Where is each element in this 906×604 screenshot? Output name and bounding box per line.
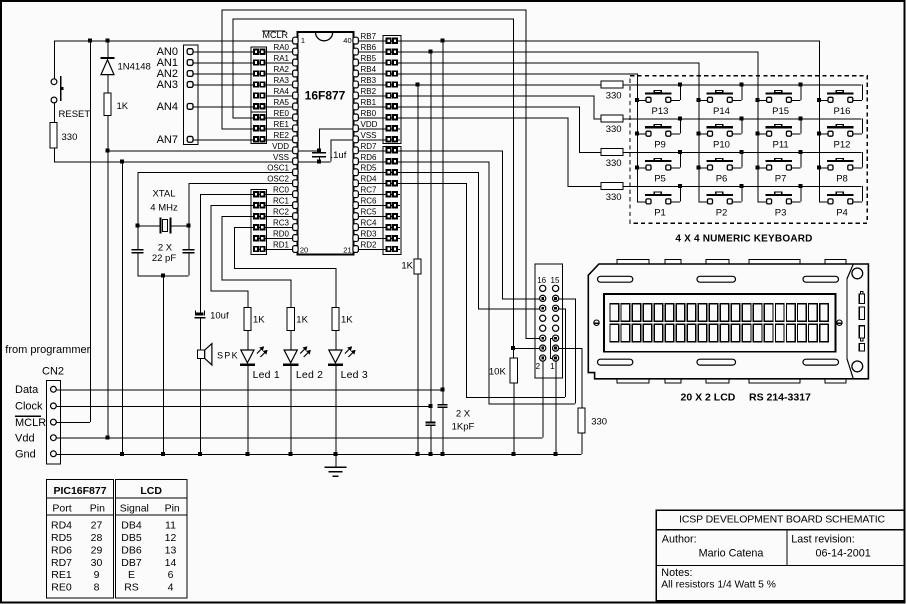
svg-text:RD4: RD4 — [51, 519, 72, 531]
svg-text:40: 40 — [343, 36, 351, 45]
svg-text:VSS: VSS — [361, 131, 377, 140]
svg-text:RD6: RD6 — [51, 544, 72, 556]
svg-text:E: E — [128, 569, 135, 581]
svg-text:MCLR: MCLR — [263, 30, 289, 40]
svg-text:P15: P15 — [772, 106, 789, 117]
svg-text:RS 214-3317: RS 214-3317 — [749, 391, 811, 403]
svg-text:DB4: DB4 — [121, 519, 142, 531]
svg-text:Pin: Pin — [165, 503, 180, 515]
svg-text:P9: P9 — [654, 140, 666, 151]
svg-text:RC0: RC0 — [273, 186, 290, 195]
svg-text:P5: P5 — [654, 174, 666, 185]
svg-text:1: 1 — [301, 36, 305, 45]
svg-text:RB6: RB6 — [361, 43, 377, 52]
svg-text:RD0: RD0 — [273, 230, 290, 239]
svg-text:30: 30 — [91, 557, 103, 569]
svg-text:22 pF: 22 pF — [152, 253, 176, 264]
svg-text:330: 330 — [62, 132, 78, 143]
svg-text:MCLR: MCLR — [15, 417, 46, 429]
svg-text:DB5: DB5 — [121, 532, 142, 544]
svg-text:P3: P3 — [775, 207, 787, 218]
svg-text:6: 6 — [168, 569, 174, 581]
svg-text:RE0: RE0 — [51, 582, 72, 594]
svg-text:RC2: RC2 — [273, 208, 290, 217]
svg-text:VDD: VDD — [272, 142, 289, 151]
svg-text:RD1: RD1 — [273, 241, 290, 250]
svg-text:P11: P11 — [772, 140, 788, 151]
svg-text:RA2: RA2 — [273, 65, 289, 74]
svg-text:RC5: RC5 — [361, 208, 378, 217]
svg-text:All resistors 1/4 Watt 5 %: All resistors 1/4 Watt 5 % — [661, 580, 776, 591]
svg-text:RESET: RESET — [59, 109, 91, 120]
svg-text:RC7: RC7 — [361, 186, 378, 195]
svg-text:RE2: RE2 — [273, 131, 289, 140]
svg-text:RA4: RA4 — [273, 87, 289, 96]
svg-text:RA3: RA3 — [273, 76, 289, 85]
svg-text:330: 330 — [606, 158, 622, 169]
svg-text:P2: P2 — [716, 207, 728, 218]
svg-text:RD5: RD5 — [51, 532, 72, 544]
svg-text:RA1: RA1 — [273, 54, 289, 63]
svg-text:RC1: RC1 — [273, 197, 290, 206]
svg-text:OSC2: OSC2 — [267, 175, 289, 184]
svg-text:P14: P14 — [713, 106, 730, 117]
svg-text:RB7: RB7 — [361, 32, 377, 41]
svg-text:RB5: RB5 — [361, 54, 377, 63]
svg-text:1K: 1K — [401, 261, 413, 272]
svg-text:SPK: SPK — [217, 350, 239, 360]
svg-text:Pin: Pin — [90, 503, 105, 515]
svg-text:RC6: RC6 — [361, 197, 378, 206]
svg-text:RA0: RA0 — [273, 43, 289, 52]
svg-text:OSC1: OSC1 — [267, 164, 289, 173]
svg-text:RB2: RB2 — [361, 87, 377, 96]
svg-text:20 X 2 LCD: 20 X 2 LCD — [681, 391, 736, 403]
svg-text:VSS: VSS — [273, 153, 289, 162]
svg-text:CN2: CN2 — [42, 366, 64, 378]
svg-text:06-14-2001: 06-14-2001 — [816, 548, 871, 560]
svg-text:RB0: RB0 — [361, 109, 377, 118]
svg-text:14: 14 — [165, 557, 177, 569]
svg-text:ICSP DEVELOPMENT BOARD SCHEMAT: ICSP DEVELOPMENT BOARD SCHEMATIC — [679, 514, 885, 526]
svg-text:RD7: RD7 — [361, 142, 378, 151]
svg-text:13: 13 — [165, 544, 177, 556]
svg-text:RB1: RB1 — [361, 98, 377, 107]
svg-text:P13: P13 — [652, 106, 669, 117]
svg-text:Led 2: Led 2 — [296, 369, 323, 381]
svg-text:RE1: RE1 — [273, 120, 289, 129]
svg-text:330: 330 — [591, 416, 607, 427]
svg-text:1: 1 — [550, 362, 555, 371]
svg-text:330: 330 — [606, 90, 622, 101]
svg-text:P4: P4 — [836, 207, 848, 218]
svg-text:1K: 1K — [296, 315, 308, 326]
svg-text:RB4: RB4 — [361, 65, 377, 74]
svg-text:Vdd: Vdd — [15, 433, 35, 445]
svg-text:LCD: LCD — [140, 485, 162, 497]
svg-text:P1: P1 — [654, 207, 666, 218]
svg-text:RD4: RD4 — [361, 175, 378, 184]
svg-text:Author:: Author: — [662, 534, 697, 546]
svg-text:330: 330 — [606, 192, 622, 203]
svg-text:RD7: RD7 — [51, 557, 72, 569]
svg-text:1KpF: 1KpF — [452, 421, 475, 432]
svg-text:2: 2 — [536, 362, 541, 371]
svg-text:Notes:: Notes: — [661, 567, 692, 579]
svg-text:RC3: RC3 — [273, 219, 290, 228]
svg-text:P8: P8 — [836, 174, 848, 185]
svg-text:Signal: Signal — [120, 503, 149, 515]
svg-text:Last revision:: Last revision: — [791, 534, 855, 546]
svg-text:RD2: RD2 — [361, 241, 378, 250]
svg-text:RS: RS — [124, 582, 139, 594]
svg-text:Clock: Clock — [15, 401, 43, 413]
svg-text:1N4148: 1N4148 — [118, 62, 151, 73]
svg-text:16: 16 — [537, 276, 546, 285]
svg-text:Port: Port — [52, 503, 71, 515]
svg-text:4 X 4 NUMERIC KEYBOARD: 4 X 4 NUMERIC KEYBOARD — [675, 233, 812, 244]
svg-text:28: 28 — [91, 532, 103, 544]
svg-text:27: 27 — [91, 519, 103, 531]
svg-text:4 MHz: 4 MHz — [150, 203, 178, 214]
svg-text:Led 3: Led 3 — [341, 369, 368, 381]
svg-text:AN7: AN7 — [157, 134, 178, 146]
svg-text:RD3: RD3 — [361, 230, 378, 239]
svg-text:P7: P7 — [775, 174, 787, 185]
svg-text:1K: 1K — [253, 315, 265, 326]
svg-text:Mario Catena: Mario Catena — [699, 548, 764, 560]
svg-text:RA5: RA5 — [273, 98, 289, 107]
svg-text:9: 9 — [94, 569, 100, 581]
svg-text:330: 330 — [606, 124, 622, 135]
svg-text:DB6: DB6 — [121, 544, 142, 556]
svg-text:12: 12 — [165, 532, 177, 544]
svg-text:11: 11 — [165, 519, 176, 531]
svg-text:10uf: 10uf — [210, 311, 229, 322]
svg-text:.1uf: .1uf — [331, 150, 347, 161]
svg-text:4: 4 — [168, 582, 174, 594]
svg-text:16F877: 16F877 — [305, 89, 346, 103]
svg-text:RD6: RD6 — [361, 153, 378, 162]
svg-text:AN3: AN3 — [157, 79, 178, 91]
svg-text:Led 1: Led 1 — [253, 369, 280, 381]
svg-text:RE0: RE0 — [273, 109, 289, 118]
svg-text:Gnd: Gnd — [15, 449, 36, 461]
svg-text:P6: P6 — [716, 174, 728, 185]
svg-text:21: 21 — [343, 245, 351, 254]
svg-text:PIC16F877: PIC16F877 — [53, 485, 106, 497]
svg-text:2 X: 2 X — [456, 409, 471, 420]
svg-text:1K: 1K — [117, 101, 129, 112]
svg-text:RC4: RC4 — [361, 219, 378, 228]
svg-text:from programmer: from programmer — [5, 344, 90, 356]
svg-text:20: 20 — [300, 245, 308, 254]
svg-text:1K: 1K — [341, 315, 353, 326]
svg-text:RE1: RE1 — [51, 569, 72, 581]
svg-text:Data: Data — [15, 384, 39, 396]
svg-text:VDD: VDD — [361, 120, 378, 129]
svg-text:29: 29 — [91, 544, 103, 556]
svg-text:XTAL: XTAL — [152, 189, 175, 200]
svg-text:15: 15 — [551, 276, 560, 285]
svg-text:P10: P10 — [713, 140, 730, 151]
svg-text:P16: P16 — [834, 106, 851, 117]
svg-text:AN4: AN4 — [157, 101, 178, 113]
svg-text:P12: P12 — [834, 140, 851, 151]
svg-text:8: 8 — [94, 582, 100, 594]
svg-text:RD5: RD5 — [361, 164, 378, 173]
svg-text:RB3: RB3 — [361, 76, 377, 85]
svg-text:10K: 10K — [489, 367, 507, 378]
svg-text:DB7: DB7 — [121, 557, 142, 569]
